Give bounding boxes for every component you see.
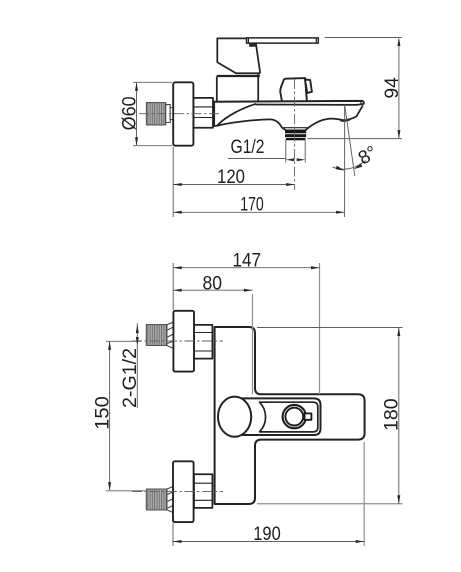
dim G1/2 (outlet): [228, 140, 305, 163]
wall pipe thread (side view): [146, 103, 173, 125]
80 arrows: [173, 289, 182, 292]
diverter tab: [305, 413, 312, 419]
lower hex nut: [194, 474, 212, 508]
lower wall flange: [173, 461, 194, 522]
svg-text:170: 170: [240, 195, 264, 216]
dim 94: [308, 38, 402, 139]
housing seam (thick): [217, 75, 260, 77]
centerline upper inlet: [132, 340, 223, 342]
dim Ø60: [133, 82, 172, 145]
upper thread cone: [167, 322, 174, 348]
upper hex nut: [194, 325, 212, 359]
lower thread cone: [167, 486, 174, 512]
8deg arc arrows: [336, 166, 345, 171]
svg-text:G1/2: G1/2: [231, 137, 265, 158]
spout boss ellipse (front): [218, 397, 251, 437]
diverter ring outer (front): [283, 405, 306, 428]
svg-text:120: 120: [217, 167, 245, 188]
lower inlet pipe thread: [146, 489, 167, 510]
upper cartridge housing: [217, 38, 260, 73]
hex nut (side view): [193, 98, 213, 128]
94 arrows: [397, 38, 400, 47]
arrowheads bottom view: [108, 266, 400, 543]
dim 190: [173, 442, 364, 546]
upper wall flange: [173, 311, 194, 372]
diverter ring inner: [285, 408, 303, 426]
spout base left edge: [214, 102, 217, 126]
dim 150: [106, 341, 145, 491]
Ø60 arrows: [135, 82, 138, 91]
svg-text:2-G1/2: 2-G1/2: [120, 348, 141, 408]
svg-text:190: 190: [253, 524, 281, 545]
150 arrows: [108, 341, 111, 350]
svg-text:80: 80: [203, 273, 223, 294]
upper inlet pipe thread: [146, 325, 167, 346]
dim 2-G1/2: [136, 323, 138, 408]
lower valve housing: [217, 74, 258, 101]
spout underside to outlet: [217, 119, 286, 130]
120 arrows: [173, 183, 182, 186]
svg-text:94: 94: [382, 77, 403, 99]
handle plate outer outline: [236, 398, 321, 435]
dim 170: [173, 211, 344, 213]
body column with spout arm: [215, 327, 365, 504]
G1/2 arrows (outward): [286, 158, 295, 161]
svg-text:147: 147: [233, 251, 262, 272]
outlet aerator thread G1/2 (dark): [282, 128, 309, 141]
arrowheads top view: [135, 38, 400, 214]
svg-text:Ø60: Ø60: [119, 96, 140, 130]
dim 180: [257, 328, 403, 504]
centerline pipe axis (horizontal): [139, 113, 219, 115]
body base connector: [212, 99, 214, 126]
wall flange escutcheon (side view): [173, 82, 193, 145]
180 arrows: [397, 328, 400, 337]
spout top plate: [214, 101, 364, 105]
spout underside right of outlet to tip: [305, 105, 363, 130]
dim 147: [173, 263, 319, 394]
svg-text:180: 180: [382, 398, 403, 431]
147 arrows: [173, 266, 182, 269]
diverter knob side flap: [305, 79, 312, 93]
dim 120: [173, 147, 294, 217]
diverter knob (side view): [280, 78, 307, 101]
170 arrows: [173, 211, 182, 214]
angle 8 deg legs: [333, 105, 367, 218]
labels bottom view: [93, 251, 403, 545]
190 arrows: [173, 540, 182, 543]
centerline lower inlet: [132, 491, 223, 493]
handle plate inner outline: [260, 402, 318, 432]
dim 80: [173, 290, 252, 394]
svg-text:150: 150: [93, 396, 114, 430]
labels top view: [119, 77, 403, 216]
spout left underside curve: [217, 104, 256, 126]
2-G1/2 arrows (outward): [136, 325, 139, 334]
centerline outlet axis (vertical): [294, 79, 296, 190]
lever handle bar: [247, 38, 319, 43]
